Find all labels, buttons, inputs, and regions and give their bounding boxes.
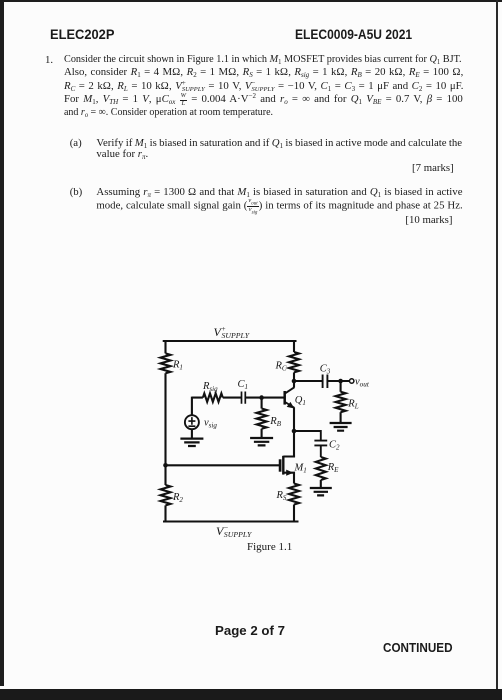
svg-text:M1: M1: [294, 463, 307, 475]
wire RC top: [293, 340, 295, 352]
svg-text:RC: RC: [275, 361, 287, 373]
resistor RS: [289, 484, 299, 523]
svg-text:C1: C1: [238, 379, 249, 391]
question number: [45, 54, 53, 67]
svg-text:V−SUPPLY: V−SUPPLY: [216, 523, 253, 539]
node collector junction: [292, 379, 297, 384]
scan border: bottom bar: [0, 689, 502, 700]
wire left bottom: [164, 505, 166, 522]
resistor RC: [289, 352, 299, 372]
svg-text:Rsig: Rsig: [202, 381, 218, 393]
resistor R2: [161, 485, 171, 505]
header left: [50, 26, 114, 42]
svg-text:R1: R1: [172, 360, 183, 372]
paragraph line 5: [64, 106, 273, 119]
V- supply rail: [163, 520, 299, 522]
wire emitter node to M1 drain: [293, 431, 295, 457]
wire Rsig to C1: [223, 397, 242, 399]
transistor Q1: [285, 381, 295, 431]
resistor RE: [316, 457, 326, 488]
svg-text:RL: RL: [347, 399, 358, 411]
capacitor C1: [242, 392, 246, 404]
wire gate lead: [166, 464, 280, 466]
svg-text:C2: C2: [329, 440, 340, 452]
capacitor C3: [323, 375, 328, 389]
part (a): [70, 137, 82, 150]
source vsig: [185, 415, 199, 429]
header right: [295, 26, 412, 42]
node gate junction: [163, 463, 168, 468]
wire emitter node to C2: [294, 430, 321, 432]
svg-text:Figure 1.1: Figure 1.1: [247, 541, 292, 553]
wire C3 to vout: [327, 380, 349, 382]
resistor RB: [257, 398, 267, 438]
scan border: left bar: [0, 0, 4, 686]
scan border: top line: [0, 0, 502, 2]
labels: [172, 324, 370, 553]
resistor R1: [161, 353, 171, 373]
svg-text:C3: C3: [320, 363, 331, 375]
wire vsig to ground: [191, 429, 193, 438]
part (b): [70, 186, 83, 199]
svg-text:RS: RS: [276, 490, 287, 502]
wire base lead: [262, 397, 284, 399]
wire left top: [164, 340, 166, 353]
node base junction: [259, 395, 264, 400]
paragraph line 3: [64, 80, 463, 93]
wire RL top: [340, 381, 342, 392]
resistor RL: [336, 392, 346, 412]
svg-text:R2: R2: [172, 492, 183, 504]
wire vsig to Rsig: [192, 397, 203, 416]
paragraph line 1: [64, 53, 462, 66]
resistor Rsig: [203, 393, 223, 401]
wire collector node to C3: [294, 380, 322, 382]
wire left middle: [164, 373, 166, 485]
footer continued: [383, 640, 453, 655]
wire RC to collector node: [293, 372, 295, 381]
ground under RE: [310, 488, 332, 495]
terminal vout circle: [350, 379, 354, 383]
wire C1 to base node: [245, 397, 261, 399]
wire RL bottom: [340, 412, 342, 423]
ground under RB: [250, 438, 273, 445]
capacitor C2: [314, 430, 327, 457]
scan border: right line: [496, 0, 498, 700]
node emitter junction: [292, 429, 297, 434]
svg-text:vsig: vsig: [204, 418, 217, 430]
svg-text:vout: vout: [355, 376, 370, 388]
svg-text:RB: RB: [269, 416, 281, 428]
svg-text:RE: RE: [327, 462, 339, 474]
V+ supply rail: [163, 340, 297, 342]
transistor M1: [280, 456, 294, 484]
ground under RL: [330, 423, 352, 431]
footer page number: [215, 624, 285, 638]
paragraph line 4: [64, 93, 463, 108]
ground under vsig: [180, 439, 203, 446]
svg-text:Q1: Q1: [295, 395, 306, 407]
node C3/RL junction: [338, 379, 343, 384]
paragraph line 2: [64, 66, 463, 79]
svg-text:V+SUPPLY: V+SUPPLY: [214, 324, 251, 340]
